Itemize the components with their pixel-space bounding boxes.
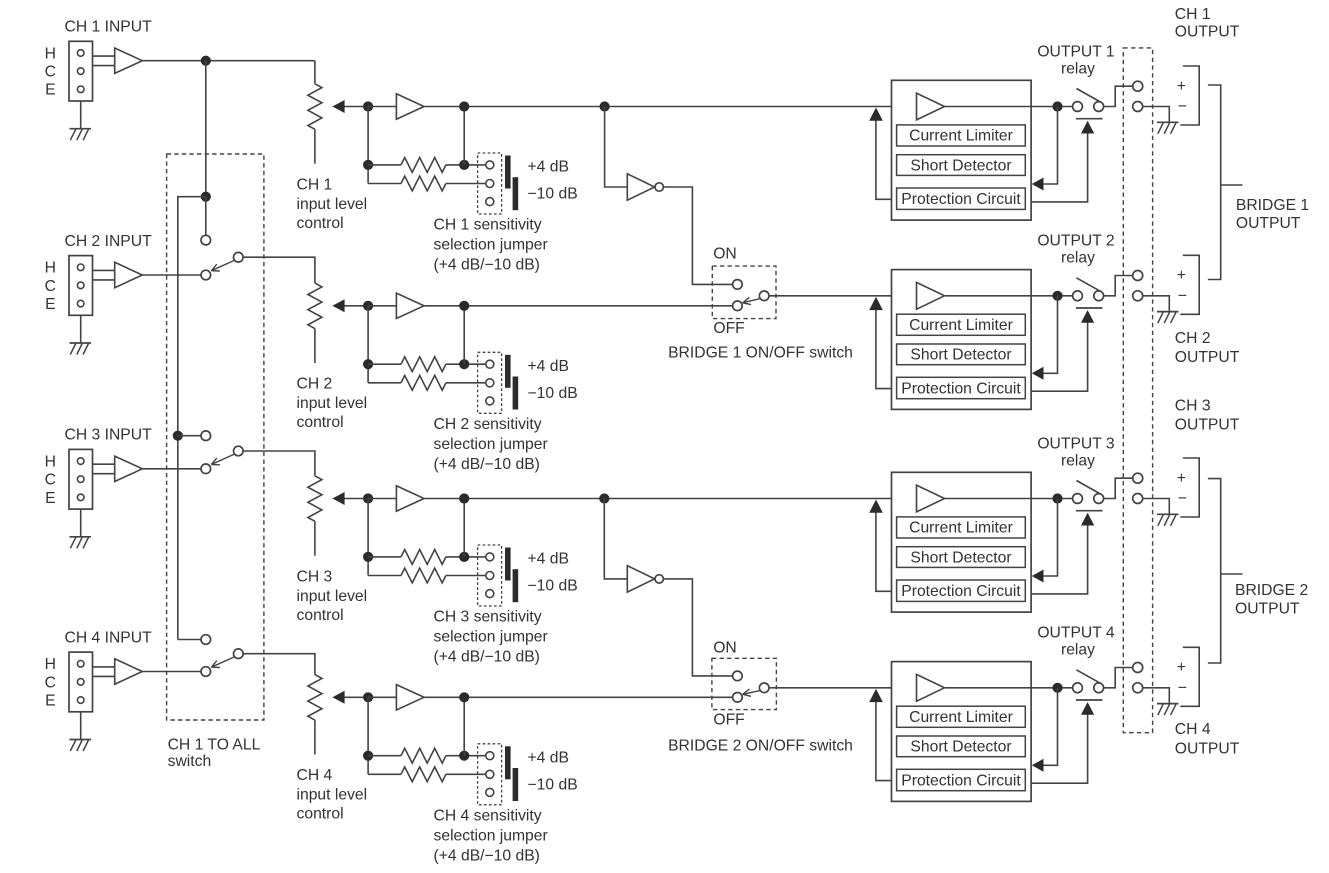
switch S4 pole (CH 4 signal) bbox=[201, 667, 211, 677]
amp triangle U1C bbox=[917, 93, 945, 120]
svg-text:ON: ON bbox=[713, 639, 737, 656]
svg-text:relay: relay bbox=[1061, 452, 1095, 469]
svg-text:+4 dB: +4 dB bbox=[528, 750, 569, 767]
label OUTPUT 2 relay bbox=[1037, 233, 1114, 267]
wire CH2 line to bridge switch bbox=[424, 305, 733, 307]
svg-text:−: − bbox=[1178, 680, 1187, 697]
node R1a right junction bbox=[459, 160, 469, 170]
svg-text:Protection Circuit: Protection Circuit bbox=[901, 772, 1021, 789]
svg-text:−10 dB: −10 dB bbox=[528, 385, 578, 402]
2nd stage amp U1B bbox=[396, 94, 424, 119]
label +4 dB (JP4) bbox=[528, 750, 569, 767]
wire amp 2 output to relay bbox=[1031, 295, 1073, 297]
feedback wire output to protection (CH 4) bbox=[1032, 688, 1058, 772]
relay RY2 contacts bbox=[1073, 278, 1104, 308]
amp triangle U3C bbox=[917, 485, 945, 512]
jumper cap +4 dB (JP1) bbox=[505, 156, 511, 189]
label + (CH 2 output) bbox=[1177, 267, 1186, 284]
svg-text:Short Detector: Short Detector bbox=[910, 549, 1011, 566]
svg-text:(+4 dB/−10 dB): (+4 dB/−10 dB) bbox=[434, 257, 540, 274]
svg-text:OUTPUT 1: OUTPUT 1 bbox=[1037, 43, 1114, 60]
svg-text:input level: input level bbox=[297, 395, 368, 412]
svg-text:input level: input level bbox=[297, 196, 368, 213]
svg-text:selection jumper: selection jumper bbox=[434, 237, 548, 254]
wire - terminal to ground (CH 3) bbox=[1143, 499, 1170, 515]
connector J3 (CH 3 INPUT) bbox=[69, 449, 93, 509]
wire wiper junction down bbox=[367, 499, 369, 576]
wire buffer2 to switch bbox=[142, 274, 201, 276]
node bus junction bbox=[201, 192, 211, 202]
label OUTPUT 3 relay bbox=[1037, 435, 1115, 469]
relay RY4 contacts bbox=[1073, 670, 1104, 700]
label - (CH 4 output) bbox=[1178, 680, 1187, 697]
label +4 dB (JP3) bbox=[528, 551, 569, 568]
wire CH line to inverter 1 bbox=[605, 107, 627, 188]
bracket BRIDGE 2 OUTPUT bbox=[1208, 479, 1243, 663]
svg-text:OUTPUT: OUTPUT bbox=[1175, 349, 1240, 366]
svg-text:E: E bbox=[45, 693, 55, 710]
wire inverter 1 to ON contact bbox=[663, 187, 732, 284]
svg-text:selection jumper: selection jumper bbox=[434, 629, 548, 646]
wire CH1 buffer output bbox=[142, 60, 315, 62]
svg-text:Protection Circuit: Protection Circuit bbox=[901, 191, 1021, 208]
node resistor junction CH4 bbox=[363, 751, 373, 761]
jumper cap -10 dB (JP2) bbox=[513, 377, 519, 410]
wire 2nd buffer output down to R2a bbox=[463, 306, 465, 364]
label - (CH 2 output) bbox=[1178, 288, 1187, 305]
svg-text:input level: input level bbox=[297, 588, 368, 605]
label CH 4 INPUT bbox=[65, 629, 153, 646]
jumper JP4 pins bbox=[486, 752, 494, 797]
block Current Limiter (CH 3) bbox=[897, 517, 1026, 538]
svg-text:CH 1: CH 1 bbox=[297, 176, 333, 193]
BRIDGE 1 switch lever bbox=[743, 297, 761, 304]
input buffer amp U1A bbox=[115, 48, 143, 73]
potentiometer VR2 (CH 2 input level control) bbox=[308, 283, 322, 363]
jumper cap -10 dB (JP1) bbox=[513, 177, 519, 210]
jumper JP2 pins bbox=[486, 360, 494, 405]
input buffer amp U3A bbox=[115, 456, 143, 481]
pin labels H C E (J3) bbox=[45, 454, 56, 507]
contact circle CH4 (from CH1 bus) bbox=[201, 635, 211, 645]
svg-text:CH 2 INPUT: CH 2 INPUT bbox=[65, 233, 153, 250]
label OUTPUT 1 relay bbox=[1037, 43, 1114, 77]
wire protection to relay coil (CH 4) bbox=[1031, 702, 1094, 783]
switch S2 lever bbox=[211, 260, 235, 271]
BRIDGE 2 switch lever bbox=[743, 689, 761, 696]
svg-text:CH 1 sensitivity: CH 1 sensitivity bbox=[434, 217, 542, 234]
wire 2nd buffer output down to R3a bbox=[463, 499, 465, 557]
connector J4 (CH 4 INPUT) bbox=[69, 652, 93, 712]
label +4 dB (JP2) bbox=[528, 358, 569, 375]
2nd stage amp U4B bbox=[396, 685, 424, 710]
BRIDGE 1 switch OFF contact bbox=[733, 301, 743, 311]
svg-text:−10 dB: −10 dB bbox=[528, 776, 578, 793]
label + (CH 1 output) bbox=[1177, 78, 1186, 95]
dashed box BRIDGE 1 switch bbox=[712, 266, 776, 319]
wire CH1 down to bus bbox=[205, 61, 207, 197]
wire J1 to buffer bbox=[93, 56, 115, 66]
feedback wire protection to input (CH 2) bbox=[869, 297, 891, 389]
svg-text:−: − bbox=[1178, 288, 1187, 305]
ground (CH 3 output) bbox=[1157, 514, 1179, 526]
dashed box BRIDGE 2 switch bbox=[712, 658, 777, 709]
power amp block U3C bbox=[892, 472, 1032, 612]
dashed box jumper JP1 bbox=[478, 153, 502, 214]
BRIDGE 1 switch common bbox=[759, 291, 769, 301]
wire 2nd buffer output down to R4a bbox=[463, 697, 465, 755]
wire CH line to inverter 2 bbox=[604, 499, 627, 579]
wire amp internal bbox=[945, 687, 1032, 689]
block Short Detector (CH 3) bbox=[897, 547, 1026, 568]
dashed box jumper JP3 bbox=[478, 545, 502, 606]
output terminal - (CH 4) bbox=[1133, 683, 1143, 693]
bracket CH 2 output bbox=[1180, 255, 1199, 314]
svg-text:+: + bbox=[1177, 78, 1186, 95]
svg-text:control: control bbox=[297, 215, 344, 232]
svg-text:C: C bbox=[45, 64, 56, 81]
svg-text:control: control bbox=[297, 806, 344, 823]
VR4 wiper arrow bbox=[332, 691, 364, 704]
wire J4 to buffer bbox=[93, 667, 115, 677]
label CH 1 sensitivity selection jumper bbox=[434, 217, 548, 274]
wire CH4 line to bridge switch bbox=[424, 696, 733, 698]
svg-text:CH 2 sensitivity: CH 2 sensitivity bbox=[434, 416, 542, 433]
label CH 2 sensitivity selection jumper bbox=[434, 416, 548, 473]
label CH 2 input level control bbox=[297, 376, 368, 432]
label ON (bridge 1) bbox=[713, 246, 737, 263]
label CH 2 OUTPUT bbox=[1175, 330, 1240, 366]
wire amp 3 output to relay bbox=[1031, 498, 1073, 500]
connector J2 (CH 2 INPUT) bbox=[69, 256, 93, 316]
contact circle CH2 (from CH1 bus) bbox=[201, 235, 211, 245]
node CH3 line junction A bbox=[459, 493, 469, 503]
svg-text:selection jumper: selection jumper bbox=[434, 436, 548, 453]
jumper cap +4 dB (JP2) bbox=[505, 355, 511, 388]
feedback wire output to protection (CH 1) bbox=[1032, 107, 1058, 191]
wire - terminal to ground (CH 2) bbox=[1143, 296, 1170, 312]
label OFF (bridge 2) bbox=[713, 712, 744, 729]
svg-text:Current Limiter: Current Limiter bbox=[909, 317, 1013, 334]
label -10 dB (JP3) bbox=[528, 578, 578, 595]
output terminal + (CH 3) bbox=[1133, 473, 1143, 483]
ground (CH 2 output) bbox=[1157, 312, 1179, 324]
switch S4 lever bbox=[211, 657, 235, 668]
wire bus L-bend bbox=[178, 197, 206, 640]
svg-text:switch: switch bbox=[168, 753, 212, 770]
2nd stage amp U3B bbox=[396, 486, 424, 511]
relay RY1 contacts bbox=[1073, 89, 1104, 119]
wire relay RY3 to output terminal bbox=[1104, 478, 1133, 498]
block Current Limiter (CH 1) bbox=[897, 125, 1026, 146]
block Protection Circuit (CH 1) bbox=[897, 188, 1026, 209]
amp triangle U4C bbox=[917, 674, 945, 701]
svg-text:H: H bbox=[45, 45, 56, 62]
label -10 dB (JP4) bbox=[528, 776, 578, 793]
svg-text:H: H bbox=[45, 454, 56, 471]
wire wiper to 2nd buffer bbox=[368, 106, 396, 108]
node resistor junction CH1 bbox=[363, 160, 373, 170]
block Current Limiter (CH 4) bbox=[897, 706, 1026, 727]
wire wiper to 2nd buffer bbox=[368, 305, 396, 307]
amp triangle U2C bbox=[917, 282, 945, 309]
label CH 2 INPUT bbox=[65, 233, 153, 250]
svg-text:Short Detector: Short Detector bbox=[910, 347, 1011, 364]
label CH 3 sensitivity selection jumper bbox=[434, 609, 548, 666]
svg-text:−10 dB: −10 dB bbox=[528, 578, 578, 595]
resistor R3b (-10 dB) bbox=[368, 568, 486, 583]
svg-text:CH 4: CH 4 bbox=[297, 767, 333, 784]
pin labels H C E (J1) bbox=[45, 45, 56, 98]
pin labels H C E (J2) bbox=[45, 260, 56, 313]
svg-text:+: + bbox=[1177, 470, 1186, 487]
block Short Detector (CH 2) bbox=[897, 344, 1026, 365]
ground (J4 shield) bbox=[70, 712, 92, 751]
svg-text:+: + bbox=[1177, 267, 1186, 284]
svg-text:E: E bbox=[45, 296, 55, 313]
svg-text:Current Limiter: Current Limiter bbox=[909, 709, 1013, 726]
node CH1 line junction B (to inverter 1) bbox=[600, 101, 610, 111]
svg-text:OUTPUT: OUTPUT bbox=[1236, 215, 1301, 232]
svg-text:relay: relay bbox=[1061, 60, 1095, 77]
wire amp internal bbox=[945, 106, 1032, 108]
svg-text:(+4 dB/−10 dB): (+4 dB/−10 dB) bbox=[434, 649, 540, 666]
BRIDGE 2 switch common bbox=[759, 683, 769, 693]
block Short Detector (CH 4) bbox=[897, 736, 1026, 757]
potentiometer VR3 (CH 3 input level control) bbox=[308, 476, 322, 556]
svg-text:E: E bbox=[45, 82, 55, 99]
power amp block U4C bbox=[892, 662, 1032, 802]
svg-text:Short Detector: Short Detector bbox=[910, 739, 1011, 756]
wire relay RY2 to output terminal bbox=[1104, 276, 1133, 296]
2nd stage amp U2B bbox=[396, 293, 424, 318]
wire S3 common to level control bbox=[243, 451, 315, 476]
svg-text:control: control bbox=[297, 607, 344, 624]
wire J2 to buffer bbox=[93, 270, 115, 280]
ground (J3 shield) bbox=[70, 509, 92, 548]
svg-text:BRIDGE 2 ON/OFF switch: BRIDGE 2 ON/OFF switch bbox=[668, 737, 853, 754]
wire relay RY4 to output terminal bbox=[1104, 668, 1133, 688]
wire bus stub to CH2 contact bbox=[205, 197, 207, 236]
resistor R4a (+4 dB) bbox=[368, 748, 486, 763]
svg-text:(+4 dB/−10 dB): (+4 dB/−10 dB) bbox=[434, 847, 540, 864]
inverter U5 (bridge 1) bbox=[627, 174, 663, 200]
output terminal - (CH 3) bbox=[1133, 494, 1143, 504]
label CH 1 TO ALL switch bbox=[168, 736, 261, 770]
node resistor junction CH3 bbox=[363, 552, 373, 562]
wire bus to CH4 contact bbox=[178, 639, 201, 641]
wire amp internal bbox=[945, 295, 1032, 297]
svg-text:OFF: OFF bbox=[713, 712, 744, 729]
jumper cap +4 dB (JP3) bbox=[505, 548, 511, 581]
label OFF (bridge 1) bbox=[713, 320, 744, 337]
inverter U6 (bridge 2) bbox=[627, 566, 663, 592]
svg-text:BRIDGE 1 ON/OFF switch: BRIDGE 1 ON/OFF switch bbox=[668, 344, 853, 361]
svg-text:OUTPUT 2: OUTPUT 2 bbox=[1037, 233, 1114, 250]
label CH 1 input level control bbox=[297, 176, 368, 232]
resistor R1a (+4 dB) bbox=[368, 158, 486, 173]
wire S2 common to level control bbox=[243, 257, 315, 283]
svg-text:+: + bbox=[1177, 659, 1186, 676]
node amp 2 output junction bbox=[1052, 291, 1062, 301]
node bus junction CH3 bbox=[173, 431, 183, 441]
dashed box CH 1 TO ALL switch bbox=[167, 154, 264, 720]
label - (CH 3 output) bbox=[1178, 490, 1187, 507]
node CH1 input junction bbox=[201, 56, 211, 66]
bracket CH 1 output bbox=[1180, 66, 1199, 125]
power amp block U1C bbox=[892, 80, 1032, 220]
potentiometer VR4 (CH 4 input level control) bbox=[308, 675, 322, 755]
connector J1 (CH 1 INPUT) bbox=[69, 41, 93, 101]
wire - terminal to ground (CH 4) bbox=[1143, 688, 1170, 704]
label CH 4 sensitivity selection jumper bbox=[434, 808, 548, 865]
node amp 1 output junction bbox=[1052, 101, 1062, 111]
wire 2nd buffer output down to R1a bbox=[463, 107, 465, 165]
svg-text:CH 4: CH 4 bbox=[1175, 721, 1211, 738]
dashed box jumper JP2 bbox=[478, 352, 502, 413]
svg-text:OUTPUT: OUTPUT bbox=[1175, 741, 1240, 758]
block Current Limiter (CH 2) bbox=[897, 314, 1026, 335]
feedback wire protection to input (CH 1) bbox=[869, 108, 891, 200]
wire CH3 main line bbox=[424, 498, 892, 500]
output terminal - (CH 2) bbox=[1133, 291, 1143, 301]
label CH 4 OUTPUT bbox=[1175, 721, 1240, 757]
node wiper junction CH3 bbox=[363, 493, 373, 503]
jumper cap -10 dB (JP4) bbox=[513, 768, 519, 801]
wire - terminal to ground (CH 1) bbox=[1143, 107, 1170, 123]
wire J3 to buffer bbox=[93, 464, 115, 474]
resistor R2a (+4 dB) bbox=[368, 357, 486, 372]
svg-text:OUTPUT: OUTPUT bbox=[1175, 417, 1240, 434]
svg-text:−: − bbox=[1178, 98, 1187, 115]
wire wiper junction down bbox=[367, 306, 369, 383]
node amp 3 output junction bbox=[1052, 493, 1062, 503]
VR2 wiper arrow bbox=[332, 299, 364, 312]
relay RY3 contacts bbox=[1073, 481, 1104, 511]
svg-text:OUTPUT 4: OUTPUT 4 bbox=[1037, 625, 1115, 642]
svg-text:H: H bbox=[45, 656, 56, 673]
label BRIDGE 1 ON/OFF switch bbox=[668, 344, 853, 361]
feedback wire protection to input (CH 3) bbox=[869, 500, 891, 592]
svg-text:OUTPUT: OUTPUT bbox=[1175, 24, 1240, 41]
wire protection to relay coil (CH 3) bbox=[1031, 513, 1094, 594]
dashed box output terminal strip bbox=[1123, 48, 1152, 733]
output terminal + (CH 2) bbox=[1133, 271, 1143, 281]
block Protection Circuit (CH 4) bbox=[897, 769, 1026, 790]
svg-text:+4 dB: +4 dB bbox=[528, 358, 569, 375]
wire amp internal bbox=[945, 498, 1032, 500]
feedback wire output to protection (CH 3) bbox=[1032, 499, 1058, 583]
wire BRIDGE 2 common to amp bbox=[769, 687, 892, 689]
svg-text:BRIDGE 2: BRIDGE 2 bbox=[1235, 582, 1308, 599]
potentiometer VR1 (CH 1 input level control) bbox=[308, 84, 322, 164]
svg-text:OUTPUT 3: OUTPUT 3 bbox=[1037, 435, 1115, 452]
switch S4 common bbox=[234, 649, 244, 659]
label BRIDGE 1 OUTPUT bbox=[1236, 197, 1309, 232]
wire BRIDGE 1 common to amp bbox=[769, 295, 892, 297]
svg-text:Protection Circuit: Protection Circuit bbox=[901, 380, 1021, 397]
svg-text:CH 3: CH 3 bbox=[297, 568, 333, 585]
label CH 3 OUTPUT bbox=[1175, 398, 1240, 434]
svg-text:−10 dB: −10 dB bbox=[528, 186, 578, 203]
svg-text:relay: relay bbox=[1061, 250, 1095, 267]
block Short Detector (CH 1) bbox=[897, 155, 1026, 176]
VR3 wiper arrow bbox=[332, 492, 364, 505]
svg-text:CH 3 INPUT: CH 3 INPUT bbox=[65, 427, 153, 444]
resistor R3a (+4 dB) bbox=[368, 550, 486, 565]
wire inverter 2 to ON contact bbox=[663, 579, 732, 676]
svg-text:control: control bbox=[297, 414, 344, 431]
wire bus to CH3 contact bbox=[178, 435, 201, 437]
output terminal - (CH 1) bbox=[1133, 102, 1143, 112]
svg-text:CH 4 sensitivity: CH 4 sensitivity bbox=[434, 808, 542, 825]
jumper JP3 pins bbox=[486, 553, 494, 598]
svg-text:CH 1: CH 1 bbox=[1175, 6, 1211, 23]
svg-text:CH 2: CH 2 bbox=[297, 376, 333, 393]
label CH 3 input level control bbox=[297, 568, 368, 624]
svg-text:+4 dB: +4 dB bbox=[528, 551, 569, 568]
wire CH1 main line bbox=[424, 106, 892, 108]
svg-text:Protection Circuit: Protection Circuit bbox=[901, 583, 1021, 600]
label ON (bridge 2) bbox=[713, 639, 737, 656]
bracket BRIDGE 1 OUTPUT bbox=[1208, 85, 1243, 280]
resistor R2b (-10 dB) bbox=[368, 375, 486, 390]
wire CH1 to level control bbox=[314, 61, 316, 84]
node R2a right junction bbox=[459, 359, 469, 369]
svg-text:CH 2: CH 2 bbox=[1175, 330, 1211, 347]
wire buffer4 to switch bbox=[142, 671, 201, 673]
switch S2 common bbox=[234, 252, 244, 262]
wire wiper junction down bbox=[367, 107, 369, 184]
ground (CH 1 output) bbox=[1157, 122, 1179, 134]
wire buffer3 to switch bbox=[142, 468, 201, 470]
jumper cap -10 dB (JP3) bbox=[513, 569, 519, 602]
node CH2 line junction bbox=[459, 301, 469, 311]
BRIDGE 1 switch ON contact bbox=[733, 280, 743, 290]
node wiper junction CH2 bbox=[363, 301, 373, 311]
label +4 dB (JP1) bbox=[528, 159, 569, 176]
svg-text:CH 3 sensitivity: CH 3 sensitivity bbox=[434, 609, 542, 626]
svg-text:(+4 dB/−10 dB): (+4 dB/−10 dB) bbox=[434, 456, 540, 473]
svg-text:C: C bbox=[45, 674, 56, 691]
output terminal + (CH 4) bbox=[1133, 663, 1143, 673]
wire protection to relay coil (CH 2) bbox=[1031, 310, 1094, 391]
resistor R1b (-10 dB) bbox=[368, 176, 486, 191]
svg-text:Current Limiter: Current Limiter bbox=[909, 520, 1013, 537]
svg-text:−: − bbox=[1178, 490, 1187, 507]
svg-text:C: C bbox=[45, 472, 56, 489]
node CH4 line junction bbox=[459, 692, 469, 702]
block Protection Circuit (CH 3) bbox=[897, 580, 1026, 601]
bracket CH 4 output bbox=[1180, 647, 1199, 706]
svg-text:CH 1 TO ALL: CH 1 TO ALL bbox=[168, 736, 261, 753]
svg-text:CH 3: CH 3 bbox=[1175, 398, 1211, 415]
block Protection Circuit (CH 2) bbox=[897, 377, 1026, 398]
ground (J1 shield) bbox=[70, 101, 92, 140]
feedback wire protection to input (CH 4) bbox=[869, 689, 891, 781]
wire wiper to 2nd buffer bbox=[368, 498, 396, 500]
switch S3 pole (CH 3 signal) bbox=[201, 464, 211, 474]
jumper cap +4 dB (JP4) bbox=[505, 746, 511, 779]
svg-text:+4 dB: +4 dB bbox=[528, 159, 569, 176]
svg-text:CH 4 INPUT: CH 4 INPUT bbox=[65, 629, 153, 646]
power amp block U2C bbox=[892, 270, 1032, 410]
ground (J2 shield) bbox=[70, 315, 92, 354]
svg-text:Short Detector: Short Detector bbox=[910, 157, 1011, 174]
label CH 1 OUTPUT bbox=[1175, 6, 1240, 41]
switch S3 lever bbox=[211, 454, 235, 465]
label BRIDGE 2 ON/OFF switch bbox=[668, 737, 853, 754]
